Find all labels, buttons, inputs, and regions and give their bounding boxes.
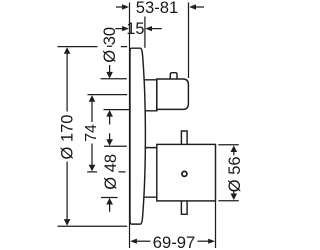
volume-control body Ø56: [157, 144, 216, 201]
svg-text:15: 15: [126, 20, 144, 38]
dim Ø48 top arrow: [109, 133, 111, 139]
top tab: [181, 131, 187, 144]
dim 74 top extension line: [88, 94, 128, 96]
thermostat sleeve: [145, 80, 157, 111]
escutcheon plate Ø170 (side view): [130, 48, 145, 224]
svg-text:53-81: 53-81: [136, 0, 178, 17]
thermostat handle Ø30: [157, 79, 189, 109]
dim Ø170 top extension line: [58, 45, 128, 47]
dim Ø56 top extension line: [218, 144, 239, 146]
dim 74 bottom extension line: [87, 171, 125, 173]
dim Ø56 top arrow: [233, 152, 235, 155]
bottom tab: [181, 201, 187, 214]
dim Ø56 bottom extension line: [218, 200, 239, 202]
volume-control sleeve Ø48: [145, 148, 157, 198]
svg-text:69-97: 69-97: [153, 233, 195, 250]
svg-text:Ø 48: Ø 48: [102, 154, 120, 190]
dim Ø170 bottom arrow: [66, 162, 68, 220]
dim Ø48 top extension line: [104, 145, 127, 147]
handle grip notch: [170, 73, 177, 79]
finished wall line: [129, 3, 131, 249]
dim 69-97 right extension line: [215, 201, 217, 248]
dim Ø170 bottom extension line: [58, 225, 128, 227]
svg-text:Ø 56: Ø 56: [226, 156, 244, 192]
dim 74 bottom arrow: [91, 144, 93, 166]
svg-text:Ø 30: Ø 30: [101, 27, 119, 63]
dim Ø30 bottom arrow: [109, 116, 111, 124]
dim 74 top arrow: [91, 102, 93, 123]
dim Ø48 bottom arrow: [109, 204, 111, 212]
dim 69-97 left arrow: [137, 240, 151, 242]
dim Ø30 top arrow: [109, 65, 111, 72]
dim 15 left arrow: [115, 28, 122, 30]
dim 69-97 right arrow: [198, 240, 209, 242]
dim Ø30 top extension line: [101, 78, 127, 80]
svg-text:Ø 170: Ø 170: [58, 115, 76, 160]
center screw dot: [182, 171, 187, 176]
dim 53-81 right extension line: [188, 3, 190, 79]
dim Ø170 top arrow: [66, 53, 68, 111]
dim Ø56 bottom arrow: [233, 191, 235, 194]
dim 53-81 right arrow: [196, 6, 204, 8]
dim Ø48 bottom extension line: [101, 197, 118, 199]
dim 53-81 left arrow: [116, 6, 122, 8]
dim 15 right arrow: [152, 28, 162, 30]
dim 15 right extension line: [144, 17, 146, 48]
dim Ø30 bottom extension line: [104, 109, 131, 111]
svg-text:74: 74: [83, 124, 100, 142]
